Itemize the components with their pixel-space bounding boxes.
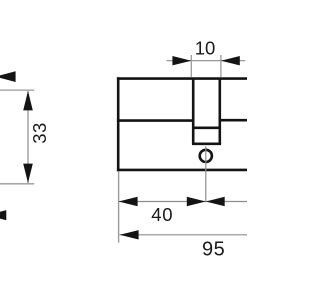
cylinder body left edge xyxy=(117,77,120,171)
dimension 40: right arrowhead pointing right xyxy=(187,197,206,206)
svg-text:40: 40 xyxy=(151,204,173,225)
cylinder body top edge xyxy=(117,77,247,80)
dimension 33: top arrowhead pointing up xyxy=(23,91,33,110)
dimension 10: right arrowhead pointing left xyxy=(221,56,240,65)
cam axis centerline xyxy=(205,146,207,201)
cam slot right edge xyxy=(219,78,222,144)
svg-text:95: 95 xyxy=(202,238,225,260)
svg-text:33: 33 xyxy=(29,122,50,144)
dimension 33: bottom extension line xyxy=(0,183,34,185)
fixing screw hole circle xyxy=(200,150,212,162)
dimension 95: left arrowhead pointing left xyxy=(120,230,139,239)
dimension 40: left arrowhead pointing left xyxy=(119,197,138,206)
cylinder body mid parting line right segment xyxy=(221,119,247,122)
dimension 33: bottom arrowhead pointing down xyxy=(23,164,33,183)
dimension 40: dimension line continuing right xyxy=(119,201,247,203)
dimension 10: right extension line xyxy=(220,55,222,77)
svg-text:10: 10 xyxy=(195,38,216,59)
adjacent dimension arrowhead pointing left at centerline xyxy=(206,197,225,206)
cylinder body mid parting line left segment xyxy=(117,119,192,122)
cylinder body bottom edge xyxy=(117,169,247,172)
cropped arrowhead at left edge bottom xyxy=(0,210,6,220)
dimension 33: top extension line xyxy=(0,89,34,91)
cam slot bottom edge xyxy=(192,143,221,146)
cropped arrowhead at left edge top xyxy=(0,71,16,82)
dimension 10: left arrowhead pointing right xyxy=(172,56,191,65)
dimension 10: left extension line xyxy=(190,55,192,77)
dimension 10: dimension line xyxy=(167,60,246,62)
left extension line below body xyxy=(118,171,120,242)
dimension 95: dimension line xyxy=(120,234,247,236)
cam slot left edge xyxy=(192,78,195,144)
cam slot inner line xyxy=(194,127,219,130)
dimension 33: dimension line xyxy=(27,91,29,183)
